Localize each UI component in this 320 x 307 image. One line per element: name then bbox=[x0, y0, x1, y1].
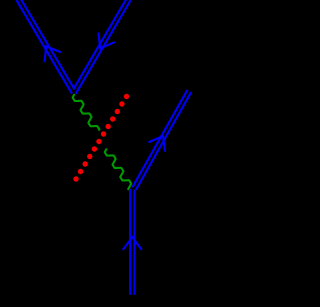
arrow on left V arm (points up-left) bbox=[45, 46, 61, 61]
black core: vertical bbox=[131, 188, 133, 295]
fermion double line: incoming bottom vertical bbox=[129, 189, 136, 295]
arrow on vertical (points up) bbox=[123, 237, 141, 249]
gluon wavy segment lower (cut to vertex) bbox=[105, 149, 131, 189]
arrow on diagonal (points up-right) bbox=[149, 136, 165, 151]
fermion double line: outgoing diagonal bbox=[134, 91, 189, 189]
black core: diagonal bbox=[134, 91, 190, 190]
black core: right arm bbox=[73, 0, 129, 94]
fermion double line: incoming right arm of V bbox=[74, 0, 129, 93]
red dotted cut line bbox=[124, 94, 129, 99]
black core carving double-line gap: left arm bbox=[18, 0, 74, 94]
arrow on right V arm (points toward vertex) bbox=[98, 33, 114, 48]
fermion double line: outgoing left arm of V bbox=[18, 0, 74, 93]
gluon wavy segment upper (vertex to cut) bbox=[73, 95, 100, 130]
